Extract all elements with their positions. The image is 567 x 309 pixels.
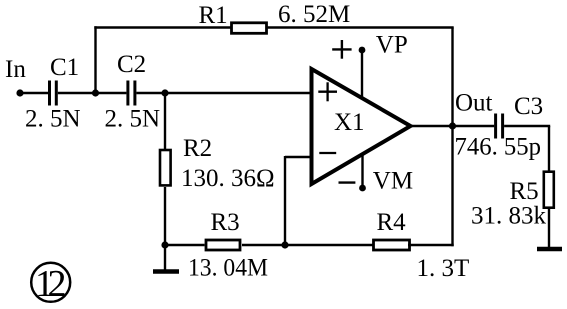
resistor R3 bbox=[206, 240, 240, 250]
figure number circle 12 bbox=[31, 263, 70, 302]
node junction R2 R3 ground bbox=[161, 241, 168, 248]
svg-text:2: 2 bbox=[48, 263, 67, 305]
wire R4 left bbox=[285, 244, 373, 246]
capacitor C3 bbox=[494, 114, 497, 139]
svg-text:In: In bbox=[5, 56, 26, 83]
VM pin wire bbox=[361, 154, 363, 188]
resistor R4 bbox=[374, 240, 410, 250]
svg-text:2. 5N: 2. 5N bbox=[105, 106, 161, 133]
svg-text:1. 3T: 1. 3T bbox=[417, 255, 470, 282]
svg-text:C3: C3 bbox=[514, 93, 543, 120]
wire R5 bottom bbox=[548, 209, 550, 247]
wire feedback top right segment bbox=[266, 26, 454, 28]
wire R3 to inverting junction bbox=[242, 244, 285, 246]
wire op-amp output to C3 bbox=[410, 125, 494, 127]
wire ground stub left bbox=[164, 245, 166, 270]
svg-text:31. 83k: 31. 83k bbox=[471, 203, 547, 230]
VP plus mark bbox=[332, 48, 351, 50]
node junction R2 tap bbox=[161, 89, 168, 96]
svg-text:VP: VP bbox=[376, 32, 408, 59]
VM minus mark bbox=[339, 181, 356, 183]
svg-text:Out: Out bbox=[455, 90, 493, 117]
svg-text:6. 52M: 6. 52M bbox=[278, 1, 350, 28]
svg-text:X1: X1 bbox=[334, 109, 365, 136]
wire R4 right bbox=[408, 244, 454, 246]
resistor R2 bbox=[160, 150, 171, 185]
node VM terminal bbox=[359, 185, 366, 192]
svg-text:13. 04M: 13. 04M bbox=[188, 255, 268, 282]
wire R2 bottom bbox=[164, 187, 166, 245]
svg-text:130. 36Ω: 130. 36Ω bbox=[181, 165, 275, 192]
wire C3 to right vertical bbox=[504, 125, 550, 127]
svg-text:R1: R1 bbox=[199, 2, 228, 29]
node junction R3 R4 inverting branch bbox=[281, 241, 288, 248]
wire In to C1 bbox=[20, 92, 48, 94]
svg-text:746. 55p: 746. 55p bbox=[455, 134, 542, 161]
svg-text:R2: R2 bbox=[183, 135, 212, 162]
svg-text:R4: R4 bbox=[377, 209, 407, 236]
node VP terminal bbox=[359, 47, 366, 54]
resistor R1 bbox=[232, 23, 267, 34]
svg-text:R5: R5 bbox=[510, 178, 539, 205]
op-amp X1 bbox=[312, 69, 411, 184]
wire C1 to C2 bbox=[58, 92, 127, 94]
wire inverting branch vertical bbox=[284, 156, 286, 245]
wire right vertical down to R5 bbox=[548, 126, 550, 171]
svg-text:R3: R3 bbox=[211, 209, 240, 236]
node In terminal bbox=[16, 89, 23, 96]
wire C2 to op-amp noninverting input bbox=[136, 92, 311, 94]
capacitor C2 bbox=[126, 81, 129, 106]
node junction feedback tap bbox=[92, 89, 99, 96]
svg-text:2. 5N: 2. 5N bbox=[25, 106, 81, 133]
resistor R5 bbox=[544, 172, 554, 208]
wire feedback vertical left bbox=[94, 26, 96, 93]
wire R2 top bbox=[164, 93, 166, 151]
op-amp inverting minus mark bbox=[319, 152, 336, 154]
wire inverting input horizontal bbox=[285, 156, 312, 158]
wire R3 left bbox=[165, 244, 205, 246]
wire feedback vertical right down to output node bbox=[451, 28, 453, 127]
op-amp noninverting plus mark bbox=[318, 91, 337, 93]
ground bbox=[153, 269, 179, 274]
svg-text:C2: C2 bbox=[117, 51, 146, 78]
capacitor C1 bbox=[48, 81, 51, 106]
VP pin wire bbox=[361, 50, 363, 99]
svg-text:VM: VM bbox=[373, 168, 413, 195]
wire output node down to R4 bbox=[451, 126, 453, 246]
svg-text:C1: C1 bbox=[50, 54, 79, 81]
ground right bbox=[537, 247, 562, 252]
wire feedback top left segment bbox=[94, 26, 233, 28]
node output junction bbox=[449, 122, 456, 129]
